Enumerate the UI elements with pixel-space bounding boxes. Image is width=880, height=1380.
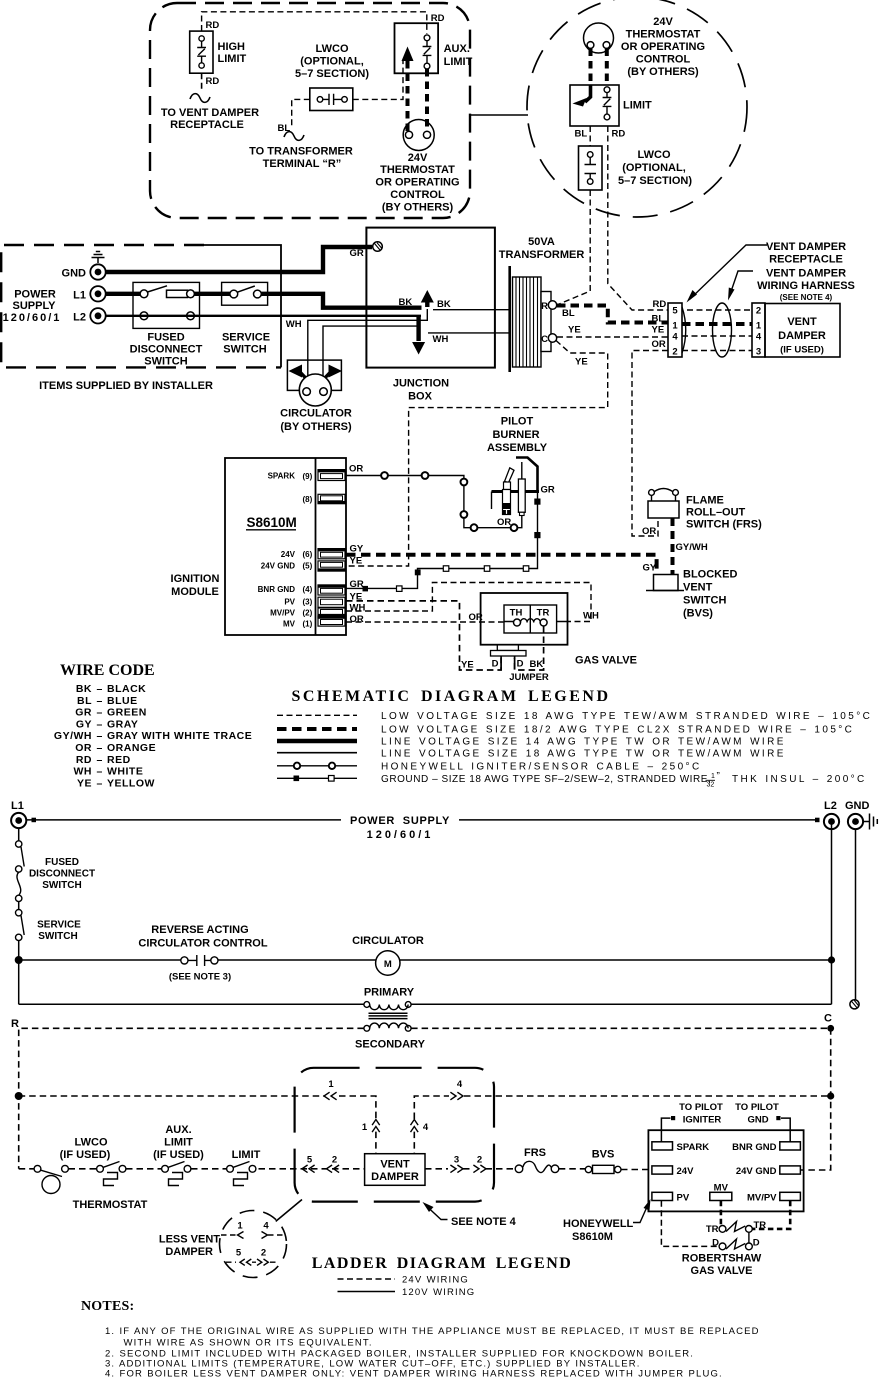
svg-text:RECEPTACLE: RECEPTACLE (769, 254, 843, 266)
svg-text:(OPTIONAL,: (OPTIONAL, (300, 56, 364, 68)
aux limit switch (395, 23, 439, 73)
svg-text:CONTROL: CONTROL (390, 189, 445, 201)
svg-text:SERVICE: SERVICE (222, 332, 270, 344)
svg-text:LIMIT: LIMIT (232, 1149, 261, 1161)
svg-text:BURNER: BURNER (492, 429, 539, 441)
label VENT DAMPER RECEPTACLE w/ leader (687, 241, 847, 303)
label GY (at module) (350, 544, 364, 555)
svg-text:VENT DAMPER: VENT DAMPER (766, 268, 846, 280)
wire BK thin to transformer (433, 309, 510, 311)
aux limit switch (ladder) (162, 1162, 191, 1186)
wire circulator tap WH (323, 326, 419, 387)
svg-text:DAMPER: DAMPER (165, 1246, 213, 1258)
label GR (350, 248, 364, 259)
svg-text:2: 2 (756, 306, 761, 317)
wire TO PILOT IGNITER (661, 1116, 675, 1142)
wire L1 black thick (106, 294, 422, 308)
circulator (287, 360, 342, 406)
svg-text:THK INSUL – 200°C: THK INSUL – 200°C (732, 774, 867, 785)
junction dot C rail 24V (827, 1092, 834, 1099)
svg-text:FRS: FRS (524, 1147, 546, 1159)
svg-text:VENT: VENT (380, 1159, 410, 1171)
flame roll-out switch FRS (648, 489, 679, 519)
svg-text:YE: YE (575, 357, 588, 368)
label TO VENT DAMPER RECEPTACLE (161, 107, 259, 131)
svg-text:GAS VALVE: GAS VALVE (575, 655, 637, 667)
honeywell S8610M box (ladder) (648, 1130, 803, 1211)
ground symbol above GND terminal (92, 252, 105, 264)
label C (824, 1013, 832, 1025)
svg-text:24V: 24V (408, 152, 428, 164)
svg-text:SWITCH: SWITCH (144, 356, 187, 368)
label BNR GND (ladder) (732, 1142, 776, 1153)
label BVS (592, 1149, 615, 1161)
svg-text:(BY OTHERS): (BY OTHERS) (627, 66, 699, 78)
svg-text:GR: GR (541, 485, 555, 496)
vent damper connector (752, 303, 765, 357)
svg-text:GY: GY (350, 544, 364, 555)
terminal (9) SPARK (318, 470, 345, 481)
ground screw (ladder) (850, 1000, 859, 1009)
label GND (62, 268, 87, 280)
legend row low voltage 18 awg (thin dashed) (277, 711, 872, 722)
wire WH thin to transformer (428, 332, 510, 334)
svg-text:ORANGE: ORANGE (107, 742, 156, 754)
label OR (spark) (349, 464, 363, 475)
FRS switch (ladder) (515, 1161, 559, 1172)
wire C rail dashed (411, 1028, 831, 1170)
svg-text:BNR GND: BNR GND (732, 1142, 776, 1153)
enclosure vent damper plug rounded rect (295, 1068, 494, 1202)
svg-text:120V WIRING: 120V WIRING (402, 1287, 475, 1298)
enclosure: detail circle (dashed) (527, 0, 747, 217)
svg-text:SPARK: SPARK (268, 472, 296, 481)
svg-text:D: D (753, 1238, 760, 1249)
svg-text:(OPTIONAL,: (OPTIONAL, (622, 162, 686, 174)
svg-text:(2): (2) (303, 609, 313, 618)
svg-text:SWITCH: SWITCH (223, 344, 266, 356)
svg-text:(IF USED): (IF USED) (153, 1149, 204, 1161)
label OR (at FRS) (642, 526, 656, 537)
label RD (at receptacle) (653, 299, 667, 310)
label (SEE NOTE 3) (169, 972, 231, 983)
fused disconnect switch box (133, 282, 200, 328)
enclosure: items supplied by installer dashed box (1, 245, 281, 367)
wire WH thick down arrow (412, 316, 425, 355)
svg-text:ASSEMBLY: ASSEMBLY (487, 442, 548, 454)
wire TO PILOT GND (776, 1116, 790, 1142)
BVS switch (ladder) (585, 1165, 621, 1173)
svg-text:24V GND: 24V GND (261, 562, 295, 571)
label 24V (6) (281, 550, 313, 559)
svg-text:4: 4 (756, 332, 762, 343)
vent damper box (ladder) (365, 1154, 425, 1186)
junction dot L2/circulator (828, 956, 835, 963)
tick square at L2 (815, 818, 820, 823)
svg-text:1: 1 (711, 773, 715, 780)
label (8) (303, 495, 313, 504)
plug pin arrows 5 2 (302, 1165, 339, 1173)
svg-text:BLUE: BLUE (107, 695, 138, 707)
svg-text:BOX: BOX (408, 391, 433, 403)
terminal L1 (90, 286, 105, 301)
svg-text:FUSED: FUSED (147, 332, 184, 344)
wire dashed LWCO to aux limit (353, 60, 403, 99)
svg-text:MV/PV: MV/PV (270, 609, 296, 618)
svg-text:1: 1 (362, 1122, 368, 1133)
svg-text:OR: OR (349, 464, 363, 475)
terminal (5) 24V GND (318, 561, 345, 571)
svg-text:WIRE CODE: WIRE CODE (60, 662, 155, 679)
high limit switch (190, 31, 213, 73)
service switch box (222, 282, 268, 305)
label VENT DAMPER (IF USED) (778, 316, 826, 356)
svg-text:1. IF ANY OF THE ORIGINAL: 1. IF ANY OF THE ORIGINAL WIRE AS SUPPLI… (105, 1326, 760, 1337)
terminal (2) MV/PV (318, 608, 345, 618)
svg-text:REVERSE ACTING: REVERSE ACTING (151, 924, 248, 936)
svg-text:–: – (97, 766, 103, 778)
ladder legend 24V wiring (338, 1275, 469, 1286)
title NOTES: (81, 1299, 134, 1314)
ignition module S8610M box (225, 458, 346, 635)
svg-text:D: D (517, 659, 524, 670)
svg-text:TR: TR (706, 1224, 719, 1235)
lwco optional switch (310, 88, 353, 111)
transformer 50VA (510, 266, 557, 372)
svg-text:TO PILOT: TO PILOT (679, 1102, 723, 1113)
wire code table (54, 683, 252, 789)
svg-text:DAMPER: DAMPER (778, 330, 826, 342)
primary winding (19, 1002, 832, 1010)
label CIRCULATOR (ladder) (352, 935, 424, 947)
svg-text:RD: RD (76, 754, 92, 766)
wire YE PV to gas valve D (346, 601, 501, 670)
svg-text:GRAY: GRAY (107, 718, 138, 730)
svg-text:L2: L2 (824, 800, 837, 812)
label YE (at gas valve) (461, 660, 474, 671)
svg-text:RD: RD (653, 299, 667, 310)
wire BK up arrow in junction box (421, 290, 434, 307)
wire power supply line (26, 819, 815, 821)
svg-text:LINE VOLTAGE SIZE 18 AWG: LINE VOLTAGE SIZE 18 AWG TYPE TW OR TEW/… (381, 748, 786, 759)
svg-text:5–7 SECTION): 5–7 SECTION) (618, 175, 692, 187)
svg-text:CONTROL: CONTROL (636, 54, 691, 66)
label YE (below C) (575, 357, 588, 368)
svg-text:MODULE: MODULE (171, 586, 219, 598)
svg-text:S8610M: S8610M (572, 1231, 613, 1243)
terminal PV (ladder) (652, 1192, 673, 1200)
terminal (6) 24V (318, 549, 345, 559)
label L2 (73, 311, 86, 323)
svg-text:(9): (9) (303, 472, 313, 481)
svg-text:(4): (4) (303, 585, 313, 594)
label 4 (pin) (423, 1122, 429, 1133)
svg-text:BK: BK (530, 659, 544, 670)
label GAS VALVE (575, 655, 637, 667)
junction dot R rail 24V (15, 1092, 23, 1100)
svg-text:4: 4 (263, 1221, 269, 1232)
terminal SPARK (ladder) (652, 1142, 673, 1150)
label 24V GND (5) (261, 562, 313, 571)
label R (11, 1018, 19, 1030)
svg-text:TRANSFORMER: TRANSFORMER (499, 249, 585, 261)
svg-text:BK: BK (76, 683, 92, 695)
svg-text:4: 4 (457, 1079, 463, 1090)
svg-text:TH: TH (510, 608, 523, 619)
svg-text:LOW VOLTAGE SIZE 18/2 AWG: LOW VOLTAGE SIZE 18/2 AWG TYPE CL2X STRA… (381, 725, 854, 736)
label S8610M underlined (246, 515, 297, 530)
svg-text:IGNITER: IGNITER (683, 1114, 722, 1125)
svg-text:NOTES:: NOTES: (81, 1299, 134, 1314)
reverse acting circulator control contact (181, 955, 218, 966)
svg-text:120/60/1: 120/60/1 (367, 829, 434, 841)
label LESS VENT DAMPER (159, 1234, 220, 1259)
label WH small (286, 319, 302, 330)
label 24V THERMOSTAT OR OPERATING CONTROL (BY OTHERS) circle (621, 16, 705, 78)
svg-text:POWER: POWER (14, 289, 56, 301)
label PRIMARY (364, 987, 415, 999)
wire PV to D (661, 1201, 719, 1247)
secondary winding (364, 1023, 411, 1031)
svg-text:POWER SUPPLY: POWER SUPPLY (350, 815, 450, 827)
D contacts gas valve (719, 1239, 752, 1250)
junction box (366, 228, 495, 368)
label CIRCULATOR (BY OTHERS) (280, 408, 352, 434)
terminal (1) MV (318, 616, 345, 626)
title WIRE CODE (60, 662, 155, 679)
wire WH MV/PV around gas valve (346, 583, 591, 622)
svg-text:DISCONNECT: DISCONNECT (130, 344, 203, 356)
label BK right (437, 299, 451, 310)
svg-text:OR OPERATING: OR OPERATING (375, 177, 459, 189)
vent damper receptacle (668, 303, 686, 357)
terminal GND (90, 264, 105, 279)
svg-text:2: 2 (261, 1248, 266, 1259)
label YE (PV) (350, 592, 363, 603)
svg-text:GY: GY (76, 718, 92, 730)
svg-text:PV: PV (677, 1193, 690, 1204)
wire thick dashed thermostat leads (591, 49, 607, 87)
label BNR GND (4) (258, 585, 313, 594)
svg-text:BK: BK (437, 299, 451, 310)
svg-text:BL: BL (575, 129, 588, 140)
svg-text:WHITE: WHITE (107, 766, 143, 778)
svg-text:WIRING HARNESS: WIRING HARNESS (757, 280, 855, 292)
svg-text:LIMIT: LIMIT (164, 1137, 193, 1149)
label BLOCKED VENT SWITCH (BVS) (683, 569, 737, 620)
wire BVS to 24V (621, 1169, 652, 1171)
wire RD dashed loop top (202, 12, 427, 34)
svg-text:2: 2 (672, 347, 677, 358)
svg-text:(5): (5) (303, 562, 313, 571)
wire OR MV to gas valve TH (346, 621, 503, 623)
label BK left (399, 297, 413, 308)
wire RD dashed down to receptacle 5 (608, 126, 668, 310)
svg-text:MV/PV: MV/PV (747, 1193, 777, 1204)
label TO PILOT IGNITER (679, 1102, 723, 1125)
label PV (3) (284, 597, 312, 606)
svg-text:120/60/1: 120/60/1 (3, 312, 62, 324)
wire TR to D link (748, 1232, 750, 1243)
terminal 24V GND (ladder) (780, 1166, 801, 1174)
label WH (MV/PV) (350, 603, 366, 614)
wire 24V run to vent damper plug 1 (19, 1092, 376, 1119)
svg-text:BK: BK (399, 297, 413, 308)
svg-text:GRAY WITH WHITE TRACE: GRAY WITH WHITE TRACE (107, 730, 252, 742)
terminal L2 (ladder) (824, 814, 839, 829)
svg-text:3: 3 (454, 1155, 459, 1166)
svg-text:OR: OR (350, 614, 364, 625)
label RD (left) (206, 20, 220, 31)
svg-text:S8610M: S8610M (247, 515, 297, 530)
label WH (at gas valve) (583, 611, 599, 622)
labels 5 2 plug (236, 1248, 266, 1259)
svg-text:LIMIT: LIMIT (623, 100, 652, 112)
label GR (at module) (350, 579, 364, 590)
rail GND to screw (855, 829, 857, 1000)
legend row low voltage 18/2 (thick dashed) (277, 725, 854, 736)
wire thick dashed arrow up (24V thermostat left lead) (402, 47, 414, 132)
label YE (at receptacle) (652, 325, 665, 336)
wire thick dashed (24V thermostat right lead) (425, 69, 429, 131)
svg-text:BVS: BVS (592, 1149, 615, 1161)
svg-text:SECONDARY: SECONDARY (355, 1039, 426, 1051)
title SCHEMATIC DIAGRAM LEGEND (291, 688, 610, 705)
label SERVICE SWITCH (ladder) (37, 920, 81, 943)
label FRS (524, 1147, 546, 1159)
terminal L1 (ladder) (11, 813, 26, 828)
wire MV to TR (720, 1201, 723, 1226)
svg-text:BLACK: BLACK (107, 683, 146, 695)
label LIMIT (623, 100, 652, 112)
svg-text:C: C (824, 1013, 832, 1025)
wire GND green thick (106, 247, 372, 272)
svg-text:–: – (97, 683, 103, 695)
limit switch (circle detail) (570, 85, 619, 126)
svg-text:SERVICE: SERVICE (37, 920, 81, 931)
label SPARK (9) (268, 472, 313, 481)
svg-text:OR: OR (652, 339, 666, 350)
svg-text:2: 2 (332, 1155, 337, 1166)
label POWER SUPPLY 120/60/1 (3, 289, 62, 324)
wire MV/PV to TR (753, 1201, 791, 1229)
svg-text:C: C (541, 334, 548, 345)
label BL / RD under limit box (575, 129, 626, 140)
svg-text:5–7 SECTION): 5–7 SECTION) (295, 68, 369, 80)
svg-text:5: 5 (307, 1155, 313, 1166)
svg-text:4: 4 (672, 332, 678, 343)
labels 5 2 (307, 1155, 337, 1166)
svg-text:VENT: VENT (787, 316, 817, 328)
svg-text:WH: WH (74, 766, 93, 778)
lwco switch (ladder) (34, 1165, 68, 1193)
wire YE dashed C down to module 24V GND (346, 341, 608, 567)
legend row honeywell igniter cable (277, 762, 702, 773)
svg-text:–: – (97, 695, 103, 707)
svg-text:SPARK: SPARK (677, 1142, 710, 1153)
svg-text:–: – (97, 718, 103, 730)
label OR (at receptacle) (652, 339, 666, 350)
svg-text:RD: RD (206, 76, 220, 87)
svg-text:JUNCTION: JUNCTION (393, 378, 449, 390)
svg-text:BL: BL (278, 123, 291, 134)
svg-text:2: 2 (477, 1155, 482, 1166)
label WH (433, 334, 449, 345)
label MV (ladder) (714, 1182, 729, 1193)
svg-text:LOW VOLTAGE SIZE 18 AWG T: LOW VOLTAGE SIZE 18 AWG TYPE TEW/AWM STR… (381, 711, 872, 722)
label LWCO (IF USED) (60, 1137, 111, 1162)
label 24V (ladder) (677, 1166, 695, 1177)
svg-text:HIGH: HIGH (218, 41, 246, 53)
labels 2 1 4 3 connector pins (756, 306, 762, 358)
svg-text:BL: BL (652, 314, 665, 325)
label BL (at receptacle) (652, 314, 665, 325)
wire R rail dashed (19, 1028, 364, 1169)
svg-text:DAMPER: DAMPER (371, 1171, 419, 1183)
svg-text:ROLL–OUT: ROLL–OUT (686, 507, 746, 519)
svg-text:(SEE NOTE 3): (SEE NOTE 3) (169, 972, 231, 983)
24V thermostat (circle detail) (584, 23, 614, 53)
wire BL thick dashed R to receptacle 1 (557, 306, 668, 323)
svg-text:4. FOR BOILER LESS VENT D: 4. FOR BOILER LESS VENT DAMPER ONLY: VEN… (105, 1369, 723, 1380)
transformer core (ladder) (369, 1013, 408, 1018)
terminal GND (ladder) (848, 814, 863, 829)
pilot burner assembly (492, 458, 540, 516)
svg-text:ROBERTSHAW: ROBERTSHAW (682, 1253, 762, 1265)
labels 3 2 (454, 1155, 482, 1166)
label FLAME ROLL-OUT SWITCH (FRS) (686, 495, 762, 531)
vent damper box (765, 304, 840, 358)
svg-text:YE: YE (350, 556, 363, 567)
svg-text:1: 1 (756, 321, 762, 332)
label HIGH LIMIT (218, 41, 247, 65)
svg-text:(BVS): (BVS) (683, 608, 713, 620)
svg-text:HONEYWELL IGNITER/SENSOR CAB: HONEYWELL IGNITER/SENSOR CABLE – 250°C (381, 762, 702, 773)
svg-text:WH: WH (583, 611, 599, 622)
svg-text:24V: 24V (653, 16, 673, 28)
label 24V GND (ladder) (736, 1166, 777, 1177)
label L2 (ladder) (824, 800, 837, 812)
svg-text:–: – (97, 730, 103, 742)
label AUX. LIMIT (IF USED) (153, 1124, 204, 1161)
circulator motor M (376, 951, 400, 975)
svg-text:LWCO: LWCO (316, 43, 349, 55)
wires receptacle to connector (682, 310, 752, 351)
svg-text:SWITCH (FRS): SWITCH (FRS) (686, 519, 762, 531)
wire OR igniter/sensor cable (345, 472, 522, 531)
title LADDER DIAGRAM LEGEND (312, 1255, 573, 1272)
svg-text:CIRCULATOR: CIRCULATOR (352, 935, 424, 947)
svg-text:SEE NOTE 4: SEE NOTE 4 (451, 1216, 517, 1228)
wire L2 white (106, 315, 421, 317)
label D D BK (492, 659, 544, 671)
labels 5 1 4 2 receptacle pins (672, 306, 678, 358)
ground screw in junction box (373, 242, 383, 252)
wire rung right of vent damper to FRS/BVS (425, 1165, 515, 1173)
svg-text:WH: WH (286, 319, 302, 330)
svg-text:FUSED: FUSED (45, 857, 79, 868)
label 4 (top right plug) (457, 1079, 463, 1090)
24V thermostat (box) (403, 120, 434, 151)
svg-text:–: – (97, 742, 103, 754)
less vent damper plug circle (220, 1211, 287, 1278)
svg-text:GROUND – SIZE 18 AWG TYPE SF–2: GROUND – SIZE 18 AWG TYPE SF–2/SEW–2, ST… (381, 774, 711, 785)
label L1 (73, 289, 86, 301)
wire 24V run vent damper plug 4 to C rail (411, 1092, 831, 1154)
label JUNCTION BOX (393, 378, 449, 403)
svg-text:GR: GR (350, 579, 364, 590)
legend row line voltage 18 awg (thin solid) (277, 748, 786, 759)
